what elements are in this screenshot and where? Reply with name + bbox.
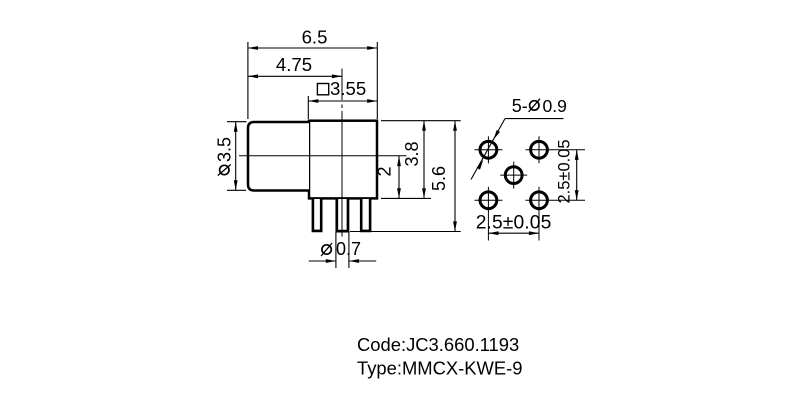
svg-text:3.5: 3.5 [214, 137, 234, 162]
pin 1 (left leg) [313, 199, 321, 231]
dimension square 3.55 [308, 78, 377, 119]
footprint hole top-right [526, 136, 586, 163]
pin 3 (right leg) [361, 199, 370, 231]
footprint hole bottom-left [475, 187, 503, 241]
svg-text:Type:MMCX-KWE-9: Type:MMCX-KWE-9 [357, 358, 523, 379]
svg-text:4.75: 4.75 [276, 54, 312, 75]
svg-text:3.8: 3.8 [402, 141, 422, 166]
dimension 6.5 [248, 26, 377, 119]
dimension 3.8 [381, 121, 461, 199]
svg-text:5.6: 5.6 [429, 166, 449, 191]
dimension 2.5±0.05 vertical [555, 139, 578, 203]
svg-text:3.55: 3.55 [330, 78, 366, 99]
svg-text:6.5: 6.5 [302, 26, 328, 47]
type label [357, 358, 523, 379]
dimension 2 [375, 156, 401, 198]
dimension 4.75 [248, 54, 342, 78]
footprint hole center [500, 162, 527, 189]
svg-text:2: 2 [375, 166, 395, 176]
pin 2 (center leg) [337, 199, 348, 231]
dimension 5.6 [350, 121, 461, 232]
dimension Ø3.5 [214, 122, 246, 191]
svg-text:0.7: 0.7 [336, 239, 361, 259]
svg-text:Code:JC3.660.1193: Code:JC3.660.1193 [357, 334, 519, 355]
svg-text:5-: 5- [512, 96, 528, 116]
footprint hole top-left [475, 136, 503, 163]
svg-text:0.9: 0.9 [543, 96, 567, 116]
connector barrel (cylinder Ø3.5, side view) [248, 122, 309, 191]
dimension Ø0.7 [309, 232, 377, 268]
footprint hole bottom-right [526, 187, 586, 241]
vertical centerline [341, 69, 343, 237]
horizontal centerline [239, 155, 407, 157]
svg-text:2.5±0.05: 2.5±0.05 [555, 139, 573, 203]
leader 5-Ø0.9 [471, 96, 567, 180]
code label [357, 334, 519, 355]
dimension 2.5±0.05 horizontal [476, 212, 552, 235]
connector body (square housing, side view) [309, 121, 377, 199]
svg-text:2.5±0.05: 2.5±0.05 [476, 212, 552, 233]
